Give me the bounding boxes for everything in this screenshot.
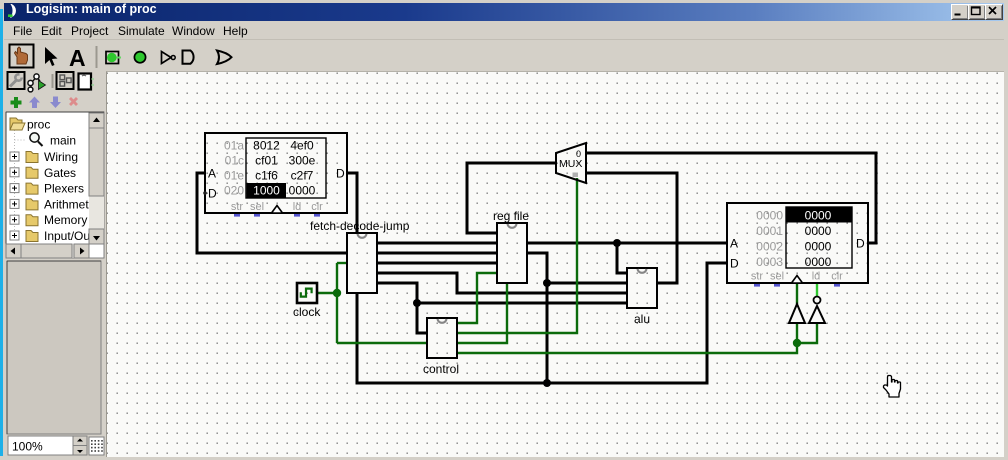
- wire A bus: regfile out1 to RAM A: [527, 242, 727, 245]
- pin stub D input: [203, 191, 207, 195]
- wire node J1 to alu in4: [417, 302, 627, 305]
- subcircuit U2 reg file: [493, 209, 529, 283]
- wire node J1 to control in1: [417, 303, 427, 333]
- NOT gate N1: [809, 297, 825, 324]
- svg-text:Memory: Memory: [44, 213, 87, 227]
- svg-text:4ef0: 4ef0: [290, 139, 314, 153]
- wire fdj out2 to regfile in3: [377, 252, 497, 255]
- wire clock net vertical: [336, 263, 338, 343]
- wire fdj out3 to regfile in4: [377, 262, 497, 265]
- add circuit button: [11, 97, 22, 108]
- clock pin triangle: [272, 206, 283, 214]
- memory contents: [805, 209, 832, 270]
- wire control out4 write-enable net: [457, 343, 797, 353]
- svg-text:Plexers: Plexers: [44, 182, 84, 196]
- application icon: [8, 4, 22, 18]
- multiplexer MUX1: [556, 143, 586, 183]
- wire alu output to MUX input 1: [586, 173, 677, 283]
- floating pin stubs: [234, 214, 320, 217]
- svg-text:300e: 300e: [289, 154, 316, 168]
- grid toggle button: [89, 437, 104, 455]
- svg-text:ld: ld: [812, 271, 821, 283]
- toolbox view button (selected): [57, 72, 74, 89]
- svg-text:fetch-decode-jump: fetch-decode-jump: [310, 219, 410, 233]
- junction write-enable net: [793, 339, 801, 347]
- OR gate icon: [217, 51, 232, 65]
- ROM program memory M1: [203, 133, 347, 217]
- remove circuit button: [69, 97, 78, 106]
- zoom control: [8, 436, 87, 455]
- svg-text:reg file: reg file: [493, 209, 529, 223]
- RAM data memory M2: [727, 203, 868, 287]
- clock pin triangle: [792, 276, 803, 284]
- wire control out1 to regfile in5: [457, 273, 497, 323]
- wire control out3 to regfile bottom pin: [457, 283, 507, 343]
- clock generator CLK1: [293, 283, 321, 319]
- explorer tree panel: [6, 112, 104, 258]
- svg-text:MUX: MUX: [559, 158, 582, 170]
- junction clock net: [333, 289, 341, 297]
- svg-text:0000: 0000: [756, 209, 783, 223]
- svg-text:8012: 8012: [253, 139, 280, 153]
- vertical scrollbar: [89, 113, 104, 244]
- bottom pin labels: [231, 201, 323, 213]
- svg-text:01a: 01a: [224, 139, 244, 153]
- floating pin stubs: [754, 284, 840, 287]
- circuit canvas: [106, 71, 1004, 457]
- wire fdj out1 to regfile in2: [377, 242, 497, 245]
- svg-text:clr: clr: [311, 201, 323, 213]
- svg-text:D: D: [856, 237, 865, 251]
- subcircuit U1 fetch-decode-jump: [310, 219, 410, 293]
- junction J2: [613, 239, 621, 247]
- select tool arrow: [45, 47, 58, 66]
- svg-text:Arithmeti: Arithmeti: [44, 197, 91, 211]
- buffer B1: [789, 304, 805, 323]
- svg-text:c1f6: c1f6: [255, 169, 278, 183]
- wrench button: [8, 72, 25, 89]
- svg-text:100%: 100%: [12, 440, 43, 454]
- separator: [96, 46, 98, 68]
- wire clock net to control clk pin: [337, 342, 427, 344]
- svg-text:1000: 1000: [253, 184, 280, 198]
- proc folder icon: [10, 118, 25, 130]
- svg-text:alu: alu: [634, 312, 650, 326]
- svg-text:str: str: [751, 271, 764, 283]
- wire control out2 to MUX select: [457, 178, 577, 333]
- wire ROM D output to fetch-decode-jump top pin: [347, 173, 357, 233]
- mouse cursor: [884, 376, 901, 398]
- svg-text:D: D: [730, 257, 739, 271]
- output pin icon: [134, 52, 145, 63]
- wire node J2 to alu in1: [617, 243, 627, 273]
- AND gate icon: [183, 51, 194, 64]
- svg-text:main: main: [50, 134, 76, 148]
- NOT gate icon: [162, 52, 176, 64]
- svg-text:Gates: Gates: [44, 166, 76, 180]
- wire buffer B1 output to RAM clk pin: [796, 283, 798, 304]
- svg-text:control: control: [423, 362, 459, 376]
- address labels: [756, 209, 783, 270]
- input pin icon: [106, 52, 121, 64]
- main label: [50, 134, 76, 148]
- svg-text:str: str: [231, 201, 244, 213]
- svg-text:sel: sel: [770, 271, 784, 283]
- subcircuit U4 control: [423, 318, 459, 376]
- horizontal scrollbar: [6, 244, 89, 258]
- bottom pin labels: [751, 271, 843, 283]
- svg-text:020: 020: [224, 184, 244, 198]
- svg-text:0000: 0000: [805, 224, 832, 238]
- svg-text:0003: 0003: [756, 255, 783, 269]
- attributes view icon: [79, 74, 95, 90]
- move down button: [50, 97, 61, 109]
- wire bottom bus: fdj bottom pin to RAM D input: [357, 263, 727, 383]
- wire ROM address A loop: fdj pin to ROM A: [197, 173, 347, 253]
- svg-text:D: D: [336, 167, 345, 181]
- svg-text:sel: sel: [250, 201, 264, 213]
- svg-text:0000: 0000: [805, 240, 832, 254]
- wire regfile out2 to node J3: [527, 253, 547, 383]
- svg-text:clr: clr: [831, 271, 843, 283]
- library rows: [10, 150, 91, 243]
- svg-text:0000: 0000: [805, 209, 832, 223]
- svg-text:A: A: [69, 45, 86, 71]
- svg-text:0: 0: [576, 149, 581, 159]
- move up button: [29, 97, 40, 109]
- svg-text:Wiring: Wiring: [44, 150, 78, 164]
- left panel: [4, 71, 107, 456]
- simulate icon: [28, 74, 46, 92]
- proc label: [27, 118, 50, 132]
- svg-text:cf01: cf01: [255, 154, 278, 168]
- wire fdj out4 to alu in3: [377, 273, 627, 293]
- svg-text:Input/Ou: Input/Ou: [44, 229, 90, 243]
- junction J1: [413, 299, 421, 307]
- poke tool button (selected): [10, 45, 34, 68]
- menu bar: [4, 21, 1004, 39]
- svg-text:01e: 01e: [224, 169, 244, 183]
- svg-text:0000: 0000: [805, 255, 832, 269]
- attribute table area: [7, 261, 101, 434]
- title bar: [4, 3, 1004, 21]
- svg-text:0002: 0002: [756, 240, 783, 254]
- svg-text:D: D: [208, 187, 217, 201]
- svg-text:A: A: [208, 167, 216, 181]
- memory contents column 2: [289, 139, 316, 198]
- memory contents column 1: [253, 139, 280, 198]
- svg-text:clock: clock: [293, 305, 321, 319]
- main magnifier icon: [30, 133, 43, 146]
- separator: [52, 74, 54, 88]
- svg-text:ld: ld: [293, 201, 302, 213]
- select value mark: [573, 173, 579, 178]
- tree dotted guides: [15, 130, 27, 236]
- svg-text:proc: proc: [27, 118, 50, 132]
- svg-text:0000: 0000: [289, 184, 316, 198]
- wire RAM D output to MUX input 0: [586, 153, 876, 243]
- wire buffer B1 input leg: [796, 323, 798, 343]
- subcircuit U3 alu: [627, 268, 657, 326]
- wire fdj out5 to node J1: [377, 283, 417, 303]
- text tool A: [69, 45, 86, 71]
- svg-text:c2f7: c2f7: [291, 169, 314, 183]
- window buttons: [951, 4, 969, 20]
- wire clock net to fdj clk pin: [337, 262, 347, 264]
- wire NOT gate output to RAM ld pin (value 1): [816, 283, 818, 296]
- desktop sliver: [0, 9, 3, 456]
- main toolbar: [4, 39, 1004, 72]
- svg-text:01c: 01c: [225, 154, 244, 168]
- wire node J3 to alu in2: [547, 282, 627, 285]
- junction J3: [543, 279, 551, 287]
- svg-text:A: A: [730, 237, 738, 251]
- junction J4 on bottom bus: [543, 379, 551, 387]
- svg-text:0001: 0001: [756, 224, 783, 238]
- wire clock output: [317, 292, 337, 294]
- wire to NOT gate input leg: [797, 323, 817, 343]
- address labels: [224, 139, 244, 198]
- wire MUX output to regfile in1: [467, 163, 556, 233]
